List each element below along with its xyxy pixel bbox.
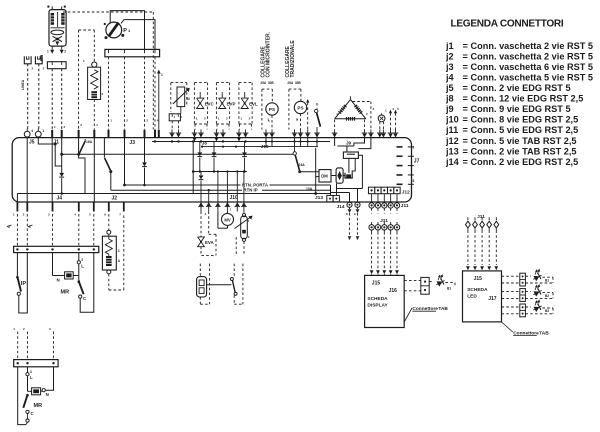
svg-text:25A: 25A (287, 81, 294, 85)
svg-text:EVP: EVP (227, 101, 236, 106)
svg-text:=: = (463, 62, 468, 72)
svg-text:j5: j5 (445, 83, 454, 93)
svg-text:8: 8 (413, 179, 415, 183)
svg-text:j10: j10 (445, 115, 459, 125)
svg-text:J10: J10 (230, 195, 239, 201)
svg-text:Conn. 9 vie EDG RST 5: Conn. 9 vie EDG RST 5 (471, 104, 571, 114)
svg-text:4: 4 (31, 129, 33, 133)
svg-text:25A: 25A (260, 81, 267, 85)
svg-text:j2: j2 (445, 51, 454, 61)
svg-text:Conn. 2 vie EDG RST 2,5: Conn. 2 vie EDG RST 2,5 (471, 157, 579, 167)
svg-text:SCHEDA: SCHEDA (367, 296, 388, 302)
svg-text:B2: B2 (545, 294, 549, 298)
svg-text:J13: J13 (315, 195, 323, 201)
svg-text:EVC: EVC (205, 101, 215, 106)
svg-text:Conn. 5 vie EDG RST 2,5: Conn. 5 vie EDG RST 2,5 (471, 125, 579, 135)
svg-text:J9: J9 (346, 140, 352, 145)
svg-text:Conn. 8 vie EDG RST 2,5: Conn. 8 vie EDG RST 2,5 (471, 115, 579, 125)
svg-text:M: M (187, 97, 190, 101)
svg-text:J12: J12 (402, 190, 410, 196)
svg-text:LED: LED (467, 293, 477, 299)
svg-text:MR: MR (61, 290, 70, 296)
svg-text:B3: B3 (545, 309, 549, 313)
svg-text:3: 3 (81, 258, 83, 262)
svg-text:=: = (463, 104, 468, 114)
svg-text:MR: MR (34, 403, 43, 409)
svg-text:TAB: TAB (438, 306, 448, 312)
svg-text:=: = (463, 146, 468, 156)
svg-text:=: = (463, 41, 468, 51)
svg-text:P: P (123, 28, 127, 34)
svg-text:J2: J2 (112, 195, 118, 201)
svg-text:J16: J16 (389, 288, 398, 294)
svg-text:LEGENDA CONNETTORI: LEGENDA CONNETTORI (451, 19, 564, 30)
svg-text:EVL: EVL (249, 101, 258, 106)
svg-text:CON MICROINTER.: CON MICROINTER. (266, 31, 272, 77)
svg-text:2: 2 (64, 50, 66, 54)
svg-text:j3: j3 (445, 62, 454, 72)
svg-text:Conn. vaschetta 6 vie RST 5: Conn. vaschetta 6 vie RST 5 (471, 62, 594, 72)
svg-text:3: 3 (30, 370, 32, 374)
svg-text:J7: J7 (414, 158, 420, 164)
svg-text:TRADIZIONALE: TRADIZIONALE (290, 40, 296, 78)
svg-text:IP: IP (21, 281, 27, 287)
svg-text:L: L (81, 264, 84, 269)
svg-text:16A: 16A (86, 140, 93, 144)
svg-text:3: 3 (118, 249, 120, 253)
svg-text:J17: J17 (488, 296, 497, 302)
svg-text:=: = (463, 157, 468, 167)
svg-text:PS: PS (269, 107, 275, 112)
svg-text:PS: PS (297, 106, 303, 111)
svg-text:DM: DM (321, 174, 328, 179)
svg-text:j11: j11 (445, 125, 458, 135)
svg-text:10A: 10A (306, 187, 313, 191)
svg-text:MV: MV (224, 217, 230, 222)
svg-text:J11: J11 (401, 203, 409, 209)
svg-text:j9: j9 (445, 104, 454, 114)
svg-text:30B: 30B (268, 81, 275, 85)
svg-text:j13: j13 (445, 146, 459, 156)
svg-text:J5: J5 (29, 140, 35, 146)
svg-text:=: = (463, 94, 468, 104)
svg-text:DISPLAY: DISPLAY (367, 302, 388, 308)
svg-text:J14: J14 (337, 204, 345, 210)
svg-text:N: N (57, 278, 60, 283)
svg-text:j4: j4 (445, 72, 455, 82)
svg-text:=: = (463, 51, 468, 61)
svg-text:=: = (463, 72, 468, 82)
svg-text:=: = (463, 115, 468, 125)
svg-text:B1: B1 (545, 278, 549, 282)
svg-text:LINEA: LINEA (21, 79, 25, 90)
svg-text:J3: J3 (130, 140, 136, 146)
svg-text:SCHEDA: SCHEDA (467, 287, 488, 293)
svg-text:Conn. 2 vie TAB RST 2,5: Conn. 2 vie TAB RST 2,5 (471, 146, 577, 156)
svg-text:Conn. 2 vie EDG RST 5: Conn. 2 vie EDG RST 5 (471, 83, 571, 93)
svg-text:Conn. 12 vie EDG RST 2,5: Conn. 12 vie EDG RST 2,5 (471, 94, 584, 104)
svg-text:1: 1 (413, 146, 415, 150)
svg-text:J15: J15 (474, 276, 483, 282)
svg-text:Conn. vaschetta 2 vie RST 5: Conn. vaschetta 2 vie RST 5 (471, 41, 594, 51)
svg-text:RTN IP: RTN IP (244, 188, 258, 193)
svg-text:j1: j1 (445, 41, 454, 51)
svg-text:Conn. 5 vie TAB RST 2,5: Conn. 5 vie TAB RST 2,5 (471, 136, 577, 146)
svg-text:1: 1 (161, 73, 163, 77)
svg-text:TAB: TAB (539, 330, 549, 336)
svg-text:16A: 16A (299, 163, 306, 167)
svg-text:B1: B1 (447, 287, 451, 291)
svg-text:=: = (463, 136, 468, 146)
svg-text:J15: J15 (372, 281, 381, 287)
svg-text:J11: J11 (477, 214, 485, 220)
svg-text:Conn. vaschetta 5 vie RST 5: Conn. vaschetta 5 vie RST 5 (471, 72, 594, 82)
svg-text:1: 1 (42, 129, 44, 133)
svg-text:j8: j8 (445, 94, 454, 104)
svg-text:EVA: EVA (205, 240, 215, 245)
svg-text:30B: 30B (295, 81, 302, 85)
svg-text:=: = (463, 125, 468, 135)
svg-text:N: N (46, 392, 49, 397)
svg-text:J4: J4 (57, 195, 63, 201)
svg-text:j14: j14 (445, 157, 460, 167)
svg-text:Conn. vaschetta 2 vie RST 5: Conn. vaschetta 2 vie RST 5 (471, 51, 594, 61)
svg-text:=: = (463, 83, 468, 93)
svg-text:L: L (30, 375, 33, 380)
svg-text:j12: j12 (445, 136, 459, 146)
svg-text:1: 1 (47, 50, 49, 54)
